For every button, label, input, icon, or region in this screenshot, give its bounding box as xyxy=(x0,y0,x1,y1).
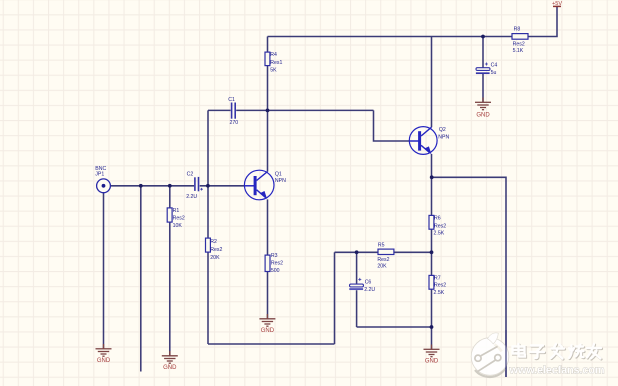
svg-text:10K: 10K xyxy=(173,223,183,229)
svg-text:C1: C1 xyxy=(228,97,235,103)
svg-text:GND: GND xyxy=(97,358,111,364)
svg-text:R1: R1 xyxy=(173,208,180,214)
svg-text:GND: GND xyxy=(261,328,275,334)
svg-text:2.2U: 2.2U xyxy=(186,194,197,200)
svg-text:JP1: JP1 xyxy=(95,172,104,178)
svg-text:Res2: Res2 xyxy=(434,283,446,289)
svg-text:C2: C2 xyxy=(187,172,194,178)
svg-text:GND: GND xyxy=(476,113,490,119)
svg-text:GND: GND xyxy=(425,359,439,365)
svg-text:R7: R7 xyxy=(434,275,441,281)
svg-text:R3: R3 xyxy=(271,253,278,259)
svg-text:Res2: Res2 xyxy=(434,223,446,229)
svg-text:Q1: Q1 xyxy=(275,172,282,178)
svg-text:Res2: Res2 xyxy=(173,215,185,221)
svg-text:2.5K: 2.5K xyxy=(434,290,445,296)
svg-text:+5V: +5V xyxy=(552,1,562,7)
svg-text:20K: 20K xyxy=(377,263,387,269)
svg-text:270: 270 xyxy=(230,120,239,126)
svg-text:20K: 20K xyxy=(210,255,220,261)
svg-text:R8: R8 xyxy=(514,27,521,33)
svg-text:NPN: NPN xyxy=(275,178,286,184)
svg-text:C6: C6 xyxy=(365,279,372,285)
svg-text:500: 500 xyxy=(271,268,280,274)
svg-text:NPN: NPN xyxy=(438,135,449,141)
svg-text:C4: C4 xyxy=(491,62,498,68)
svg-text:2.5K: 2.5K xyxy=(434,231,445,237)
svg-text:5.1K: 5.1K xyxy=(513,48,524,54)
svg-text:Res1: Res1 xyxy=(270,60,282,66)
svg-text:Res2: Res2 xyxy=(377,257,389,263)
svg-text:Res2: Res2 xyxy=(210,247,222,253)
svg-text:www.elecfans.com: www.elecfans.com xyxy=(509,364,605,376)
svg-text:2.2U: 2.2U xyxy=(364,287,375,293)
svg-text:5u: 5u xyxy=(491,70,497,76)
svg-text:R5: R5 xyxy=(378,243,385,249)
svg-text:R2: R2 xyxy=(210,239,217,245)
svg-text:Q2: Q2 xyxy=(439,127,446,133)
svg-text:R6: R6 xyxy=(434,216,441,222)
svg-text:R4: R4 xyxy=(270,52,277,58)
svg-text:5K: 5K xyxy=(270,67,277,73)
svg-text:Res2: Res2 xyxy=(271,261,283,267)
svg-text:GND: GND xyxy=(163,365,177,371)
svg-text:Res2: Res2 xyxy=(513,41,525,47)
